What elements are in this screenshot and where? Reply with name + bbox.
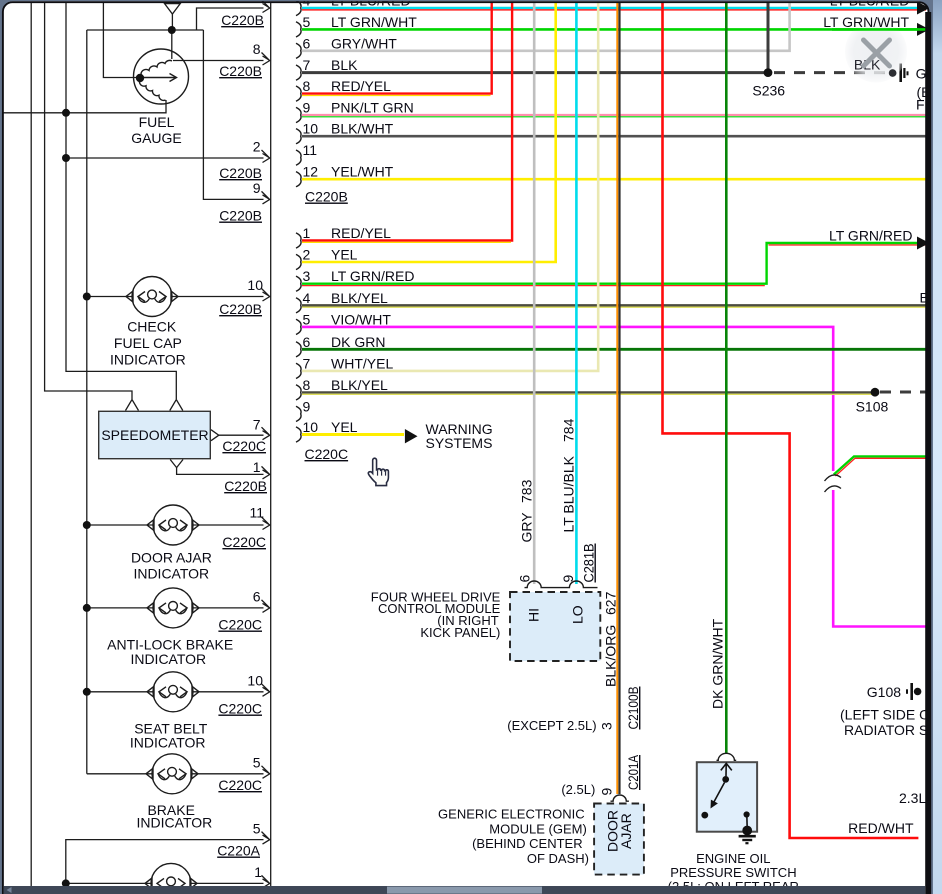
svg-text:12: 12	[303, 164, 319, 180]
label DOOR AJAR INDICATOR	[131, 550, 212, 582]
node fuel gauge bottom junction	[62, 109, 70, 117]
arrow pin5 brake	[262, 766, 270, 779]
svg-text:C281B: C281B	[581, 544, 597, 583]
svg-text:2: 2	[253, 139, 261, 155]
node door ajar junction	[83, 521, 91, 529]
wire seat belt row	[87, 691, 264, 693]
svg-text:783: 783	[519, 479, 535, 503]
wire bottom lamp row	[65, 883, 67, 890]
svg-text:S108: S108	[856, 399, 889, 415]
svg-text:(2.5L): (2.5L)	[561, 782, 595, 797]
label FOUR WHEEL DRIVE CONTROL MODULE	[371, 589, 501, 640]
svg-text:6: 6	[303, 334, 311, 350]
wire speedometer pin1 bottom row	[177, 467, 264, 474]
module C281B connector line with pin bumps	[525, 581, 598, 588]
svg-text:FUEL CAP: FUEL CAP	[114, 335, 182, 351]
svg-text:10: 10	[303, 419, 319, 435]
arrow pin5 C220A	[262, 832, 270, 845]
wire node row y30	[87, 29, 204, 31]
svg-text:LT BLU/BLK: LT BLU/BLK	[561, 455, 577, 532]
GEM box	[594, 804, 644, 875]
svg-text:6: 6	[253, 589, 261, 605]
svg-text:1: 1	[303, 225, 311, 241]
svg-text:C220A: C220A	[217, 843, 260, 859]
wire C220B pin4 LT BLU/RED	[302, 8, 926, 10]
svg-text:INDICATOR: INDICATOR	[110, 352, 186, 368]
window frame right black band	[925, 12, 931, 894]
wire C220C pin2 YEL	[302, 3, 556, 262]
svg-text:DK GRN/WHT: DK GRN/WHT	[710, 618, 726, 709]
svg-text:CHECK: CHECK	[127, 319, 177, 335]
junction dots left	[62, 26, 176, 887]
wire C220B pin9 PNK/LT GRN	[302, 115, 926, 117]
svg-text:GENERIC ELECTRONIC: GENERIC ELECTRONIC	[438, 807, 585, 822]
svg-text:C220B: C220B	[224, 478, 267, 494]
wire LT GRN/WHT over button	[832, 28, 926, 31]
svg-text:2: 2	[303, 247, 311, 263]
module 4WD box	[510, 592, 600, 661]
svg-text:C220C: C220C	[218, 617, 262, 633]
wire C220C pin4 BLK/YEL	[302, 305, 926, 307]
svg-text:KICK PANEL): KICK PANEL)	[420, 625, 500, 640]
wire C220B pin6 GRY/WHT	[302, 3, 790, 51]
right edge wire labels	[829, 0, 914, 836]
svg-text:6: 6	[517, 575, 533, 583]
node fuel gauge pivot	[136, 74, 144, 82]
arrow pin7 speedo	[262, 427, 270, 440]
svg-text:INDICATOR: INDICATOR	[133, 565, 209, 581]
svg-text:9: 9	[599, 788, 615, 796]
svg-text:7: 7	[303, 57, 311, 73]
arrow pin2	[262, 150, 270, 163]
svg-text:BLK/YEL: BLK/YEL	[331, 290, 388, 306]
svg-text:C220C: C220C	[218, 701, 262, 717]
svg-text:C220B: C220B	[219, 165, 262, 181]
svg-text:VIO/WHT: VIO/WHT	[331, 311, 391, 327]
svg-text:BLK/ORG: BLK/ORG	[603, 625, 619, 687]
svg-text:SPEEDOMETER: SPEEDOMETER	[101, 427, 208, 443]
rotated label LT BLU/BLK 784	[561, 418, 577, 532]
arrow pin10 check	[262, 289, 270, 302]
wire fuel gauge bottom to left edge	[3, 100, 166, 113]
arrow pin8 fuel gauge	[262, 53, 270, 66]
svg-text:LT GRN/RED: LT GRN/RED	[331, 268, 415, 284]
svg-text:PNK/LT GRN: PNK/LT GRN	[331, 100, 414, 116]
svg-text:C220B: C220B	[219, 208, 262, 224]
svg-text:YEL: YEL	[331, 247, 358, 263]
WIRES-COLOR	[302, 3, 926, 838]
oil switch internals	[712, 763, 732, 805]
oil pressure switch box	[697, 762, 757, 832]
svg-text:8: 8	[253, 41, 261, 57]
arrow pin11 door ajar	[262, 517, 270, 530]
lamp anti-lock	[147, 588, 199, 628]
wire C220B pin8 RED/YEL	[302, 3, 492, 96]
svg-text:C220B: C220B	[219, 63, 262, 79]
svg-text:BLK/YEL: BLK/YEL	[331, 377, 388, 393]
wire fuel gauge top feed	[171, 13, 173, 30]
ground at S236	[889, 64, 908, 83]
lamp seat belt	[147, 672, 199, 712]
svg-text:LT GRN/RED: LT GRN/RED	[829, 227, 913, 243]
connector arrows left section	[262, 0, 270, 888]
wire C220B pin7 BLK	[302, 3, 888, 73]
svg-text:RED/WHT: RED/WHT	[848, 820, 914, 836]
wire C220C pin5 VIO/WHT	[302, 327, 926, 627]
svg-text:C220B: C220B	[305, 189, 348, 205]
oil switch arrowhead	[711, 800, 718, 809]
svg-text:7: 7	[253, 416, 261, 432]
svg-text:4: 4	[303, 290, 311, 306]
wire DK GRN/WHT vertical	[725, 3, 728, 754]
svg-text:(LEFT SIDE OF: (LEFT SIDE OF	[840, 707, 939, 723]
wire bus E fuel gauge left feed	[103, 2, 141, 78]
right edge arrow LT BLU/RED	[917, 2, 930, 15]
svg-text:INDICATOR: INDICATOR	[130, 735, 206, 751]
svg-text:PRESSURE SWITCH: PRESSURE SWITCH	[670, 865, 796, 880]
C220B pin numbers	[303, 0, 319, 180]
label CHECK FUEL CAP INDICATOR	[110, 319, 186, 368]
scrollbar left arrow	[7, 887, 12, 893]
svg-text:DOOR AJAR: DOOR AJAR	[131, 550, 212, 566]
scrollbar thumb	[387, 887, 542, 894]
label ENGINE OIL PRESSURE SWITCH	[668, 851, 799, 894]
svg-text:LT GRN/WHT: LT GRN/WHT	[823, 14, 909, 30]
arrow pin1 bottom	[262, 875, 270, 888]
svg-text:10: 10	[303, 121, 319, 137]
label LEFT SIDE OF RADIATOR	[840, 707, 942, 739]
svg-text:8: 8	[303, 377, 311, 393]
svg-text:5: 5	[303, 14, 311, 30]
lamp brake	[146, 754, 198, 794]
svg-text:C220C: C220C	[222, 534, 266, 550]
wire bus A	[30, 2, 32, 890]
oil switch lower contact dot	[701, 812, 708, 819]
label BRAKE INDICATOR	[137, 802, 213, 831]
svg-text:C220B: C220B	[219, 301, 262, 317]
node anti-lock junction	[83, 604, 91, 612]
svg-text:MODULE (GEM): MODULE (GEM)	[489, 821, 587, 836]
label FUEL GAUGE	[131, 114, 182, 146]
svg-text:2.3L: 2.3L	[899, 790, 926, 806]
svg-text:INDICATOR: INDICATOR	[137, 815, 213, 831]
wire LT BLU/BLK 784 vertical	[575, 3, 578, 584]
wire speedometer pin7 row	[219, 434, 264, 436]
svg-text:9: 9	[303, 100, 311, 116]
arrow pin10 seatbelt	[262, 684, 270, 697]
oil switch connector arc	[717, 753, 737, 760]
rotated label BLK/ORG 627	[603, 591, 619, 687]
svg-text:WHT/YEL: WHT/YEL	[331, 355, 393, 371]
svg-text:G108: G108	[867, 684, 901, 700]
svg-text:ENGINE OIL: ENGINE OIL	[696, 851, 770, 866]
wire C220C pin8 BLK/YEL	[302, 392, 926, 394]
svg-text:8: 8	[303, 78, 311, 94]
wire C220C pin3 LT GRN/RED	[302, 243, 926, 286]
svg-text:GAUGE: GAUGE	[131, 130, 182, 146]
oil switch pivot dot	[722, 776, 729, 783]
svg-text:RED/YEL: RED/YEL	[331, 78, 391, 94]
right edge arrow LT GRN/RED	[917, 237, 930, 250]
svg-text:INDICATOR: INDICATOR	[130, 651, 206, 667]
lamp door ajar	[147, 505, 199, 545]
svg-text:LT GRN/WHT: LT GRN/WHT	[331, 14, 417, 30]
wire branch to pin3 arrow row y8	[197, 8, 264, 30]
svg-text:C2100B: C2100B	[625, 687, 641, 730]
svg-text:10: 10	[247, 277, 263, 293]
svg-text:5: 5	[253, 820, 261, 836]
svg-text:AJAR: AJAR	[618, 813, 634, 849]
GEM connector arc	[611, 795, 629, 801]
window frame right light band	[933, 0, 942, 894]
wire GRY 783 vertical	[533, 3, 536, 584]
svg-text:6: 6	[303, 35, 311, 51]
label SEAT BELT INDICATOR	[130, 721, 208, 751]
power feed triangle at top	[165, 4, 181, 14]
wire C220C pin1 RED/YEL	[302, 3, 512, 242]
wire brake row	[87, 773, 264, 775]
wire bus D	[86, 30, 88, 774]
C220C wire names	[331, 225, 415, 435]
wire LT GRN/RED branch diagonal	[834, 456, 926, 476]
svg-text:C220C: C220C	[222, 438, 266, 454]
svg-text:G: G	[916, 66, 927, 82]
close button circle	[845, 21, 907, 83]
C220C pin numbers	[303, 225, 319, 435]
svg-text:784: 784	[561, 418, 577, 442]
node check fuel cap junction	[83, 293, 91, 301]
svg-text:C220B: C220B	[221, 12, 264, 28]
wire RED to RED/WHT path	[663, 3, 919, 838]
svg-text:9: 9	[253, 180, 261, 196]
node pin2 junction	[62, 154, 70, 162]
wire break arcs on VIO/WHT	[825, 475, 842, 492]
WIRES-LEFT	[3, 2, 271, 890]
wire C220C pin10 YEL to warning	[302, 433, 404, 436]
splice S108 dot	[871, 388, 880, 397]
label GENERIC ELECTRONIC MODULE	[438, 807, 589, 866]
warning systems arrow	[405, 429, 418, 443]
wire check fuel cap row	[87, 296, 264, 298]
arrow pin3 top	[262, 0, 270, 13]
wire C220B pin5 LT GRN/WHT	[302, 28, 926, 31]
wire bottom C220A row	[66, 840, 264, 884]
svg-text:YEL/WHT: YEL/WHT	[331, 164, 394, 180]
svg-text:11: 11	[249, 505, 264, 521]
svg-text:1: 1	[253, 459, 261, 475]
svg-text:(BEHIND CENTER: (BEHIND CENTER	[472, 836, 583, 851]
svg-text:OF DASH): OF DASH)	[527, 851, 589, 866]
left connector labels	[217, 12, 267, 859]
rotated label DOOR AJAR	[605, 810, 635, 852]
wire door ajar row	[87, 524, 264, 526]
svg-text:BLK: BLK	[331, 57, 358, 73]
node seat belt junction	[83, 688, 91, 696]
svg-text:S236: S236	[752, 83, 785, 99]
svg-text:LO: LO	[570, 605, 586, 624]
lamp bottom clipped	[145, 863, 197, 894]
arrow pin6 antilock	[262, 600, 270, 613]
rotated label GRY 783	[519, 479, 535, 542]
wire branch down to pin9 row	[203, 30, 263, 199]
svg-text:9: 9	[560, 575, 576, 583]
svg-text:DK GRN: DK GRN	[331, 334, 385, 350]
svg-text:BLK/WHT: BLK/WHT	[331, 121, 394, 137]
node fuel gauge top junction	[168, 26, 176, 34]
wire cluster boundary line	[270, 2, 272, 890]
svg-text:C220C: C220C	[218, 777, 262, 793]
ground G108 symbol	[907, 683, 921, 700]
svg-text:YEL: YEL	[331, 419, 358, 435]
wire fuel gauge pin8 row y60.5	[173, 60, 264, 62]
wire C220C pin6 DK GRN	[302, 348, 926, 351]
svg-text:5: 5	[303, 311, 311, 327]
lamp check fuel cap	[126, 277, 178, 317]
svg-text:11: 11	[303, 142, 318, 158]
svg-text:10: 10	[247, 673, 263, 689]
svg-text:GRY: GRY	[519, 512, 535, 543]
wire BLK/ORG vertical	[617, 3, 619, 794]
svg-text:627: 627	[603, 591, 619, 615]
svg-text:5: 5	[253, 755, 261, 771]
label WARNING SYSTEMS	[426, 421, 493, 451]
connector C220C brackets	[296, 233, 301, 442]
svg-text:FUEL: FUEL	[139, 114, 175, 130]
wire bus C to speedometer right pin	[66, 2, 176, 399]
wire C220B pin12 YEL/WHT	[302, 178, 926, 181]
label G ground clipped	[916, 66, 934, 113]
svg-text:GRY/WHT: GRY/WHT	[331, 35, 397, 51]
node bottom lamp junction	[62, 879, 70, 887]
fuel gauge G1	[134, 49, 189, 104]
wire pin2 row y158	[66, 157, 264, 159]
scrollbar track	[4, 886, 926, 894]
svg-text:9: 9	[303, 398, 311, 414]
svg-text:C201A: C201A	[625, 754, 641, 790]
arrow pin1 speedo	[262, 466, 270, 479]
svg-text:SYSTEMS: SYSTEMS	[426, 435, 493, 451]
svg-text:7: 7	[303, 355, 311, 371]
wire C220B pin10 BLK/WHT	[302, 135, 926, 138]
wire anti-lock row	[87, 607, 264, 609]
mouse cursor hand	[368, 458, 388, 485]
oil switch ground branch	[739, 811, 756, 843]
splice S236 dot	[764, 68, 773, 77]
connector C220B brackets	[296, 0, 301, 186]
svg-text:C220C: C220C	[305, 446, 349, 462]
svg-text:RED/YEL: RED/YEL	[331, 225, 391, 241]
svg-text:(EXCEPT 2.5L): (EXCEPT 2.5L)	[507, 718, 596, 733]
ground dot S236 redraw	[889, 69, 897, 77]
arrow pin9	[262, 191, 270, 204]
speedometer box	[99, 400, 219, 468]
svg-text:HI: HI	[526, 608, 542, 622]
svg-text:3: 3	[599, 722, 615, 730]
left pin numbers	[247, 41, 264, 880]
close button X glyph	[864, 40, 890, 66]
wire C220C pin7 WHT/YEL	[302, 3, 598, 371]
wire bus B to speedometer left pin	[45, 2, 132, 399]
right edge arrow LT GRN/WHT	[917, 23, 930, 36]
label ANTI-LOCK BRAKE INDICATOR	[107, 637, 233, 668]
svg-text:3: 3	[303, 268, 311, 284]
svg-text:1: 1	[254, 864, 262, 880]
C220B wire names	[331, 0, 417, 180]
